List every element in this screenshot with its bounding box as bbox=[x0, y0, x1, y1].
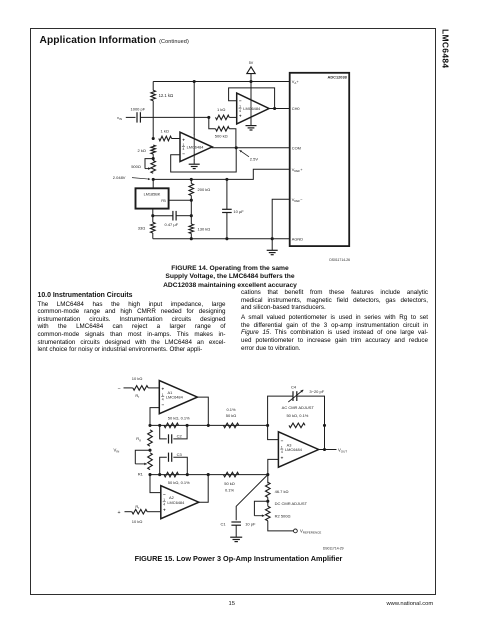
resistor Rf1 10 kOhm bbox=[133, 386, 148, 391]
wiper R1 trimmer bbox=[135, 450, 150, 464]
wire U1A feedback loop bbox=[229, 88, 275, 109]
svg-text:FB: FB bbox=[161, 199, 166, 203]
resistor Rf2 10 kOhm bbox=[132, 509, 147, 514]
wire 5V stub to op-amp U1A V+ bbox=[250, 74, 252, 99]
capacitor 10 uF bbox=[222, 208, 232, 210]
svg-text:DS011714-26: DS011714-26 bbox=[329, 258, 350, 262]
node A1 output tap bbox=[207, 424, 210, 427]
wire 2.048V node into LM185 box bbox=[152, 179, 154, 188]
node B signal junction bbox=[207, 116, 210, 119]
node A divider junction bbox=[152, 137, 155, 140]
wire U1A V- to ground bbox=[250, 118, 252, 125]
svg-text:1000 pF: 1000 pF bbox=[131, 107, 146, 112]
svg-text:0.1%: 0.1% bbox=[226, 407, 236, 412]
right column text bbox=[241, 289, 428, 352]
svg-text:R2 500Ω: R2 500Ω bbox=[275, 513, 291, 518]
node AC CMR left bbox=[266, 424, 269, 427]
svg-text:R1: R1 bbox=[138, 471, 144, 476]
voltage reference LM185BK bbox=[136, 188, 169, 208]
svg-text:−: − bbox=[239, 99, 242, 104]
page border frame bbox=[30, 28, 437, 595]
power symbol 5V bbox=[247, 67, 255, 74]
wire C3 loop bbox=[160, 457, 167, 474]
wire R46.7k to R2 bbox=[267, 497, 269, 506]
node U1B output 2.5V bbox=[235, 146, 238, 149]
wire -IN to Rf1 bbox=[124, 387, 133, 389]
resistor 130 kOhm bbox=[189, 224, 194, 234]
wire LM185 bottom bbox=[152, 209, 154, 216]
svg-text:−: − bbox=[118, 386, 121, 392]
sidebar part number LMC6484 bbox=[439, 29, 451, 69]
wire A1 feedback to top rail bbox=[150, 408, 159, 426]
svg-text:−: − bbox=[182, 152, 185, 157]
potentiometer 500 Ohm bbox=[151, 161, 156, 174]
capacitor C2 bbox=[168, 434, 170, 443]
IC ADC12038 bbox=[290, 73, 350, 246]
svg-text:50 kΩ, 0.1%: 50 kΩ, 0.1% bbox=[286, 413, 308, 418]
capacitor C4 trimmer 3-20 pF bbox=[292, 391, 294, 401]
svg-text:C3: C3 bbox=[177, 452, 183, 457]
svg-text:130 kΩ: 130 kΩ bbox=[198, 226, 211, 231]
svg-text:1 kΩ: 1 kΩ bbox=[161, 128, 169, 133]
wire AC CMR node down to output bbox=[324, 425, 326, 449]
svg-text:12.1 kΩ: 12.1 kΩ bbox=[159, 93, 174, 98]
resistor 50 kOhm top coupling bbox=[223, 423, 238, 428]
svg-text:2.048V: 2.048V bbox=[113, 175, 126, 180]
resistor 50 kOhm AC CMR bbox=[289, 423, 305, 428]
wire FB pin to 200k/130k node bbox=[169, 199, 192, 201]
wire to C 0.47uF bbox=[153, 215, 173, 217]
svg-text:4: 4 bbox=[239, 109, 241, 113]
wire A2 inverting input bbox=[150, 475, 161, 493]
svg-text:200 kΩ: 200 kΩ bbox=[198, 187, 211, 192]
caption FIGURE 14 bbox=[120, 265, 340, 290]
wire 5V rail (Figure 14) bbox=[153, 81, 290, 83]
svg-text:50 kΩ, 0.1%: 50 kΩ, 0.1% bbox=[168, 480, 190, 485]
wire C1000pF to node B bbox=[140, 116, 208, 118]
resistor 2 kOhm bbox=[151, 145, 156, 154]
footer url bbox=[387, 601, 434, 607]
svg-text:4: 4 bbox=[182, 147, 184, 151]
svg-text:1: 1 bbox=[163, 498, 165, 502]
svg-text:C1: C1 bbox=[221, 522, 227, 527]
wire C4 loop bbox=[268, 396, 293, 425]
op-amp A3 (1/4 LMC6484) bbox=[278, 432, 318, 467]
svg-text:VREFERENCE: VREFERENCE bbox=[300, 529, 321, 535]
resistor 46.7 kOhm bbox=[266, 482, 271, 497]
wire R33 to bottom rail bbox=[152, 233, 154, 239]
capacitor C1 10 pF bbox=[231, 521, 241, 523]
op-amp A1 (1/4 LMC6484) bbox=[159, 381, 197, 414]
resistor 50 kOhm bottom coupling bbox=[223, 472, 238, 477]
heading Application Information bbox=[40, 35, 189, 46]
node LM185 bottom junction bbox=[151, 214, 154, 217]
wire 5V rail corner to R 12.1k bbox=[152, 82, 154, 91]
wire R2k to pot bbox=[152, 154, 154, 160]
wire U1A output to CH0 bbox=[269, 108, 290, 110]
op-amp U1A (1/4 LMC6484 buffer to CH0) bbox=[237, 93, 269, 124]
wire supply to op-amp U1B bbox=[193, 82, 195, 136]
node op-amp U1B supply junction bbox=[193, 80, 196, 83]
capacitor 1000 pF bbox=[136, 112, 138, 122]
capacitor C3 bbox=[168, 453, 170, 462]
wire +IN to Rf2 bbox=[125, 511, 132, 513]
potentiometer R2 500 Ohm bbox=[266, 506, 271, 521]
wire C1 to ground bbox=[235, 525, 237, 537]
node AGND junction bbox=[271, 237, 274, 240]
resistor Rg bbox=[148, 430, 153, 446]
node C2 left tap bbox=[158, 424, 161, 427]
svg-text:+: + bbox=[182, 137, 185, 142]
svg-text:+: + bbox=[163, 508, 166, 513]
node A3 output bbox=[323, 448, 326, 451]
wiper 500 Ohm pot bbox=[145, 159, 153, 169]
svg-text:LMC6484: LMC6484 bbox=[285, 447, 303, 452]
wire node to R33 bbox=[152, 216, 154, 223]
svg-text:AGND: AGND bbox=[292, 237, 303, 242]
svg-text:3−20 pF: 3−20 pF bbox=[309, 389, 324, 394]
ground U1B bbox=[189, 163, 200, 165]
svg-text:1: 1 bbox=[182, 143, 184, 147]
section heading 10.0 bbox=[38, 292, 133, 299]
svg-text:−: − bbox=[281, 439, 284, 444]
wire R500k to U1B output node bbox=[229, 129, 236, 148]
wire R2 to VREFERENCE bbox=[268, 521, 294, 531]
svg-text:Rf: Rf bbox=[135, 393, 139, 399]
svg-text:−: − bbox=[163, 492, 166, 497]
node A2 output tap bbox=[207, 473, 210, 476]
svg-text:Rg: Rg bbox=[136, 436, 141, 442]
svg-text:2.5V: 2.5V bbox=[250, 157, 259, 162]
wire 10uF top leg bbox=[226, 179, 228, 209]
wire diagonal to C1 bbox=[236, 475, 268, 521]
node 2k/pot junction bbox=[152, 157, 155, 160]
svg-text:0.47 µF: 0.47 µF bbox=[165, 222, 179, 227]
svg-text:C2: C2 bbox=[177, 433, 183, 438]
wire bottom analog ground rail bbox=[153, 238, 290, 240]
svg-text:LMC6484: LMC6484 bbox=[166, 395, 184, 400]
wiper R2 trimmer bbox=[254, 501, 267, 516]
svg-text:2 kΩ: 2 kΩ bbox=[138, 148, 146, 153]
svg-text:ADC12038: ADC12038 bbox=[328, 74, 348, 79]
node AC CMR right bbox=[323, 424, 326, 427]
node 10uF bottom bbox=[225, 237, 228, 240]
resistor 12.1 kOhm bbox=[151, 90, 156, 101]
svg-text:5V: 5V bbox=[249, 61, 254, 65]
svg-text:LMC6484: LMC6484 bbox=[243, 106, 261, 111]
svg-text:LM185BK: LM185BK bbox=[144, 192, 161, 196]
svg-text:10 kΩ: 10 kΩ bbox=[132, 376, 143, 381]
caption FIGURE 15 bbox=[69, 555, 409, 563]
node 5V / V_A+ junction bbox=[249, 80, 252, 83]
svg-text:CH0: CH0 bbox=[292, 106, 301, 111]
svg-text:−: − bbox=[162, 403, 165, 408]
svg-text:10 pF: 10 pF bbox=[245, 522, 256, 527]
svg-text:+: + bbox=[239, 114, 242, 119]
wire Rf1 to A1 + bbox=[148, 387, 159, 389]
wire A2 output up to rail bbox=[199, 475, 208, 503]
wire R1k to U1B + input bbox=[172, 138, 180, 140]
svg-text:+: + bbox=[162, 387, 165, 392]
wire 2.048V rail to V_REF+ bbox=[153, 169, 290, 179]
node A1 fb corner bbox=[148, 424, 151, 427]
node C3 left tap bbox=[158, 473, 161, 476]
resistor 200 kOhm bbox=[189, 184, 194, 196]
svg-text:LMC6484: LMC6484 bbox=[167, 500, 185, 505]
node 0.47uF junction bbox=[190, 214, 193, 217]
wire 2.048V rail to R200k bbox=[190, 179, 192, 183]
resistor 500 kOhm bbox=[216, 127, 230, 132]
svg-text:46.7 kΩ: 46.7 kΩ bbox=[275, 489, 289, 494]
wire A1 output down to rail bbox=[197, 397, 208, 425]
resistor 50 kOhm 0.1% (A2 fb) bbox=[164, 472, 179, 477]
svg-text:1: 1 bbox=[162, 393, 164, 397]
resistor 1 kOhm (to U1B +) bbox=[159, 136, 172, 141]
node C3 right tap bbox=[186, 473, 189, 476]
svg-text:DC CMR ADJUST: DC CMR ADJUST bbox=[275, 501, 308, 506]
ground C1 bbox=[230, 536, 242, 538]
op-amp A2 (1/4 LMC6484) bbox=[161, 486, 199, 519]
svg-text:Rf: Rf bbox=[135, 504, 139, 510]
svg-text:10 kΩ: 10 kΩ bbox=[132, 519, 143, 524]
svg-text:50 kΩ: 50 kΩ bbox=[226, 413, 237, 418]
label 2.5V with arrow bbox=[240, 150, 250, 157]
wire bottom feedback rail bbox=[150, 474, 268, 476]
wire node to A3 inverting input bbox=[268, 425, 279, 439]
node DC CMR junction bbox=[266, 500, 269, 503]
svg-text:1 kΩ: 1 kΩ bbox=[217, 107, 225, 112]
svg-text:DS011714-29: DS011714-29 bbox=[323, 547, 344, 551]
svg-text:LMC6484: LMC6484 bbox=[187, 145, 205, 150]
svg-text:4: 4 bbox=[162, 397, 164, 401]
svg-text:COM: COM bbox=[292, 146, 301, 151]
svg-text:500 kΩ: 500 kΩ bbox=[215, 134, 228, 139]
wire U1B V- to ground bbox=[193, 159, 195, 164]
node 2.048V/200k bbox=[190, 178, 193, 181]
node C2 right tap bbox=[186, 424, 189, 427]
wire A3 + input from divider bbox=[268, 459, 279, 483]
wire V_IN to C 1000pF bbox=[126, 116, 136, 118]
svg-text:4: 4 bbox=[281, 450, 283, 454]
svg-text:10 µF: 10 µF bbox=[233, 209, 244, 214]
svg-text:50 kΩ, 0.1%: 50 kΩ, 0.1% bbox=[168, 416, 190, 421]
svg-text:33Ω: 33Ω bbox=[138, 226, 145, 231]
svg-text:1: 1 bbox=[239, 104, 241, 108]
resistor 1 kOhm (to U1A +) bbox=[216, 115, 230, 120]
node divider top bbox=[266, 473, 269, 476]
svg-text:C4: C4 bbox=[291, 384, 297, 389]
svg-text:1: 1 bbox=[281, 445, 283, 449]
node R130k bottom bbox=[190, 237, 193, 240]
resistor 33 Ohm bbox=[151, 222, 156, 233]
svg-text:vIN: vIN bbox=[117, 115, 122, 121]
resistor 50 kOhm 0.1% (A1 fb) bbox=[164, 423, 179, 428]
potentiometer R1 bbox=[148, 453, 153, 470]
node 2.048V bbox=[152, 178, 155, 181]
svg-text:AC CMR ADJUST: AC CMR ADJUST bbox=[282, 405, 315, 410]
wire A3 output to VOUT bbox=[319, 449, 337, 451]
wire 10uF bottom leg bbox=[226, 213, 228, 239]
wire R130k to bottom rail bbox=[190, 234, 192, 239]
svg-text:4: 4 bbox=[163, 503, 165, 507]
node R1 bottom junction bbox=[148, 473, 151, 476]
wire top feedback rail bbox=[150, 424, 268, 426]
ground AGND bbox=[267, 249, 278, 251]
svg-text:+: + bbox=[281, 456, 284, 461]
svg-text:+: + bbox=[118, 510, 121, 516]
svg-text:500Ω: 500Ω bbox=[131, 164, 141, 169]
wire node B down to R 500k bbox=[209, 117, 216, 128]
wire R1k to U1A + input bbox=[229, 116, 236, 118]
svg-text:VIN: VIN bbox=[114, 448, 120, 454]
terminal VREFERENCE bbox=[294, 529, 298, 533]
wire U1B output to COM bbox=[212, 146, 290, 149]
svg-text:0.1%: 0.1% bbox=[225, 488, 235, 493]
node Rg/R1 junction bbox=[148, 449, 151, 452]
svg-text:VOUT: VOUT bbox=[338, 448, 347, 454]
wire AGND stub to ground bbox=[271, 239, 273, 250]
wire Rf2 to A2 + bbox=[147, 511, 161, 513]
svg-text:50 kΩ: 50 kΩ bbox=[224, 481, 235, 486]
wire V_REF- to AGND rail bbox=[272, 199, 290, 238]
wire U1B feedback loop bbox=[171, 148, 237, 172]
wire R12.1k to node A bbox=[152, 101, 154, 139]
left column text bbox=[38, 301, 226, 355]
wire R200k to FB node bbox=[190, 196, 192, 225]
node FB junction bbox=[190, 199, 193, 202]
wire C2 loop bbox=[160, 425, 167, 439]
wire C0.47 to node bbox=[176, 215, 191, 217]
ground U1A bbox=[246, 125, 257, 127]
op-amp U1B (1/4 LMC6484 2.5V buffer) bbox=[180, 132, 212, 161]
capacitor 0.47 uF bbox=[172, 211, 174, 221]
node U1A output bbox=[273, 107, 276, 110]
footer page number bbox=[229, 601, 235, 607]
node 10uF top bbox=[225, 178, 228, 181]
